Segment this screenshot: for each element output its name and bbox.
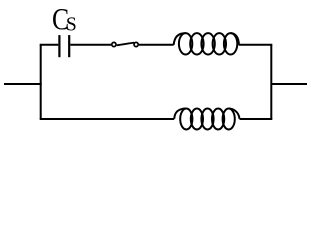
- inductor L1 loop 1: [179, 33, 192, 54]
- inductor L1 exit arc: [231, 33, 239, 45]
- inductor L2 loop 1: [180, 109, 192, 130]
- wire inductor L1 to right vertical: [239, 44, 273, 46]
- inductor L2 (bottom) entry arc: [174, 109, 186, 119]
- bottom wire left segment: [40, 118, 175, 120]
- inductor L2 loop 2: [191, 109, 203, 130]
- switch right contact circle: [134, 42, 138, 46]
- inductor L1 loop 5: [224, 33, 237, 54]
- inductor L2 exit arc: [229, 109, 240, 119]
- wire top-left (corner to capacitor): [40, 44, 59, 46]
- right external lead: [271, 83, 307, 85]
- inductor L1 loop 3: [201, 33, 214, 54]
- wire switch to inductor L1: [139, 44, 174, 46]
- switch lever: [117, 43, 135, 46]
- inductor L2 loop 5: [223, 109, 235, 130]
- capacitor C_S left plate: [58, 35, 60, 57]
- bottom wire right segment: [240, 118, 273, 120]
- right vertical wire: [270, 45, 272, 119]
- inductor L1 loop 2: [190, 33, 203, 54]
- inductor L2 loop 4: [212, 109, 224, 130]
- label C_S: [53, 9, 68, 29]
- inductor L1 loop 4: [213, 33, 226, 54]
- wire capacitor to switch: [70, 44, 111, 46]
- capacitor C_S right plate: [68, 35, 70, 57]
- left external lead: [4, 83, 42, 85]
- left vertical wire: [40, 45, 42, 119]
- inductor L2 loop 3: [201, 109, 213, 130]
- inductor L1 (top) entry arc: [174, 33, 186, 45]
- switch left contact circle: [112, 42, 116, 46]
